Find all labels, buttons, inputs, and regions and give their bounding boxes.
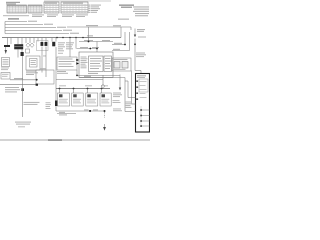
input arrow 2 [76, 62, 79, 64]
ECM inner box 1 [89, 56, 104, 72]
wire to EGI main relay [67, 26, 131, 28]
bottom wire [56, 110, 105, 112]
glow relay 1 [58, 89, 70, 107]
wire fuse feed 1 [5, 21, 27, 23]
wire slow glow drop [22, 56, 24, 117]
feeder labels [125, 102, 133, 108]
body box label [40, 68, 46, 69]
small switch box [26, 49, 30, 53]
header rule over tables 3-4 [44, 0, 111, 2]
wire fuse feed 3 [5, 27, 56, 29]
right feed wires [112, 44, 125, 46]
ECM feed wire [79, 41, 113, 43]
diamond contact 2 [30, 43, 34, 47]
label text under connector box [1, 67, 9, 70]
note block top right [133, 6, 149, 16]
dropping resistor box [112, 58, 131, 71]
relay group outline [37, 41, 49, 51]
junction dots lower bus [59, 88, 103, 90]
label slow glow relay [24, 102, 40, 105]
diode arrow left [5, 50, 8, 54]
droplines from bus [8, 38, 77, 58]
arrow to ground circuit [134, 29, 136, 35]
ground stub top right [138, 36, 146, 38]
wire mid horizontal [77, 74, 120, 76]
ECM inner box 2 [104, 56, 112, 72]
page bottom rule [0, 139, 150, 141]
EGI relay label [26, 71, 38, 75]
connector table 1 [7, 5, 27, 13]
wire second horizontal [56, 79, 103, 81]
fuse table 4 [61, 2, 88, 13]
ground bus wire [56, 88, 110, 90]
label see slow glow [15, 122, 31, 123]
relay coil blob right [52, 42, 55, 47]
wire fuse feed 5 [5, 33, 69, 35]
EGI main relay box [26, 56, 40, 70]
oil press switch box [1, 73, 10, 80]
fuse block bracket [4, 22, 6, 34]
joint connector box [57, 57, 77, 70]
joint connector label [57, 71, 66, 72]
vertical from main line [88, 27, 90, 42]
fusible link bar [4, 45, 10, 47]
diamond on drop [102, 75, 104, 84]
glow relay 3 [86, 89, 98, 107]
note text right of resistor [136, 53, 146, 58]
wire low oil to body box [10, 79, 37, 81]
connector table 2 [28, 5, 42, 13]
junction dots on bus [56, 37, 84, 39]
relay block left lower [21, 52, 24, 56]
relay block left [14, 44, 23, 49]
label EGI system [118, 19, 129, 20]
title text A/T IGNITION SWITCH [6, 2, 20, 5]
bottom wire 2 [57, 113, 76, 115]
vertical into ECM [96, 42, 98, 53]
feeder wires to relay box [124, 78, 126, 112]
label FUSE BLOCK [8, 18, 19, 19]
splice blob on drop [21, 88, 24, 91]
dashed arrow to next page [104, 112, 106, 118]
bus label [113, 25, 121, 26]
main bus wire [2, 37, 121, 39]
label E4 list [46, 102, 52, 109]
diamond contact 1 [26, 43, 30, 47]
legend list right of table 4 [91, 5, 102, 13]
wire drops below relays [18, 47, 56, 112]
junction dot corner [36, 84, 38, 86]
wire fuse feed 4 [5, 30, 62, 32]
wire ECM left feed [77, 48, 98, 50]
connector blob E4 [55, 101, 57, 107]
ground arrow mid right [119, 75, 121, 88]
glow relay 2 [72, 89, 84, 107]
label L/C oil press relay [5, 87, 20, 92]
footnote denotes connector [3, 14, 88, 17]
input arrow 1 [76, 59, 79, 61]
ECM module box [79, 52, 113, 77]
ECM bottom wire [79, 77, 125, 79]
relay coil blobs [41, 42, 44, 46]
connector box left [2, 58, 10, 67]
glow relay 4 [100, 89, 111, 107]
body connector box [36, 70, 54, 84]
wire fuse feed 2 [5, 24, 43, 26]
tiny note bottom left [18, 126, 25, 127]
relay box housing [136, 74, 150, 133]
bus labels [59, 85, 66, 86]
fuse table 3 [44, 2, 59, 13]
label GROUND CIRCUIT LINK RELAY [119, 5, 134, 8]
label LOW OIL [14, 78, 23, 79]
wire ground run [0, 83, 37, 85]
relay labels center [43, 42, 74, 56]
